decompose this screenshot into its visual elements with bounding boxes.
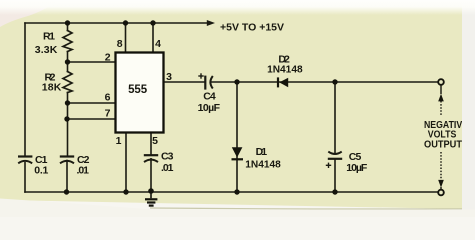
output measure dashed line lower xyxy=(440,152,442,179)
white margin top fade xyxy=(0,0,475,15)
svg-text:OUTPUT: OUTPUT xyxy=(424,139,463,151)
wire: C5 top lead xyxy=(334,82,336,154)
capacitor C5 plates (polarized) xyxy=(328,152,342,159)
junction C5 bottom xyxy=(332,189,337,194)
junction R1/R2 pin2 xyxy=(65,59,70,64)
svg-text:10µF: 10µF xyxy=(198,102,221,114)
wire: pin 2 to R1/R2 junction xyxy=(68,61,116,63)
wire: pin 6 to R2 bottom xyxy=(68,102,116,104)
C4 plus sign xyxy=(198,73,203,78)
junction pin1 bottom xyxy=(123,189,128,194)
supply arrowhead xyxy=(207,20,215,26)
wire: pin 5 down to C3 xyxy=(150,134,152,155)
wire: C5 bottom lead xyxy=(334,159,336,192)
svg-text:2: 2 xyxy=(105,52,111,64)
wire: top supply rail xyxy=(25,22,208,24)
capacitor C4 plates (polarized) xyxy=(205,76,213,90)
junction pin5/ground xyxy=(148,188,154,194)
svg-text:+5V TO +15V: +5V TO +15V xyxy=(220,21,284,33)
svg-text:5: 5 xyxy=(152,135,158,147)
svg-text:R1: R1 xyxy=(43,31,55,43)
C5 plus sign xyxy=(326,163,331,168)
wire: C4 to output row, through D2 to terminal xyxy=(211,81,439,83)
output measure arrow down xyxy=(438,180,444,188)
svg-text:555: 555 xyxy=(128,84,148,96)
svg-text:0.1: 0.1 xyxy=(34,165,48,177)
junction at pin 4 rail xyxy=(150,20,155,25)
junction C2 bottom xyxy=(64,189,69,194)
svg-text:7: 7 xyxy=(105,108,111,120)
junction at R1 top xyxy=(65,20,70,25)
capacitor C2 plates xyxy=(60,157,74,164)
wire: R1 to R2 xyxy=(67,52,69,72)
svg-text:3.3K: 3.3K xyxy=(35,44,58,56)
svg-text:10µF: 10µF xyxy=(346,162,368,174)
white margin bottom xyxy=(0,199,475,218)
junction node A (C4/D1/D2) xyxy=(234,79,239,84)
diode D2 (triangle) xyxy=(279,78,288,88)
wire: left rail upper (to C1) xyxy=(24,23,26,156)
svg-text:.01: .01 xyxy=(161,162,174,174)
top-left pink scan blob xyxy=(0,0,58,27)
output measure dashed line upper xyxy=(440,101,442,117)
wire: pin 4 to rail xyxy=(152,23,154,52)
ground symbol xyxy=(145,192,157,206)
junction D1 bottom xyxy=(234,189,239,194)
svg-text:6: 6 xyxy=(105,92,111,104)
svg-text:4: 4 xyxy=(155,38,161,50)
wire: C3 to ground rail xyxy=(150,159,152,192)
svg-text:1N4148: 1N4148 xyxy=(245,159,281,171)
diode D2 (cathode bar) xyxy=(277,77,279,87)
wire: pin 1 down to ground rail xyxy=(125,134,127,193)
capacitor C1 plates xyxy=(18,157,32,164)
bottom edge shadow line xyxy=(150,207,462,210)
white margin right xyxy=(462,0,475,217)
svg-text:.01: .01 xyxy=(77,165,90,177)
capacitor C3 plates xyxy=(144,155,158,162)
junction pin7 xyxy=(64,116,69,121)
svg-text:3: 3 xyxy=(166,71,172,83)
junction at pin 8 rail xyxy=(123,20,128,25)
resistor R1 zigzag xyxy=(63,31,72,52)
output measure stem upper xyxy=(440,86,442,95)
junction D2/C5 top xyxy=(332,79,337,84)
resistor R2 zigzag xyxy=(63,72,72,93)
output terminal top xyxy=(438,79,444,85)
svg-text:C3: C3 xyxy=(161,150,174,162)
wire: bottom ground rail xyxy=(25,191,439,193)
wire: left rail lower (C1 to bottom) xyxy=(24,163,26,192)
wire: pin 3 to C4 xyxy=(165,81,205,83)
junction R2 bottom pin6 xyxy=(65,100,70,105)
wire: R2 bottom down to C2 xyxy=(67,93,69,156)
wire: node A down through D1 to ground rail xyxy=(236,82,238,192)
output terminal bottom xyxy=(438,190,444,196)
svg-text:18K: 18K xyxy=(42,81,62,93)
svg-text:D1: D1 xyxy=(256,146,268,158)
wire: resistor column lead R1 top xyxy=(67,23,69,31)
wire: pin 8 to rail xyxy=(125,23,127,52)
output measure arrow up xyxy=(438,94,444,102)
wire: pin 7 to column xyxy=(67,118,115,120)
wire: C2 bottom lead xyxy=(66,161,68,193)
svg-text:C4: C4 xyxy=(203,91,216,103)
svg-text:8: 8 xyxy=(117,38,123,50)
svg-text:1N4148: 1N4148 xyxy=(267,64,303,76)
diode D1 (triangle, pointing down) xyxy=(232,147,243,157)
diode D1 (cathode bar) xyxy=(232,158,244,160)
svg-text:1: 1 xyxy=(116,135,122,147)
op: IC U1 555 timer body xyxy=(116,53,164,133)
output measure stem lower xyxy=(440,187,442,190)
